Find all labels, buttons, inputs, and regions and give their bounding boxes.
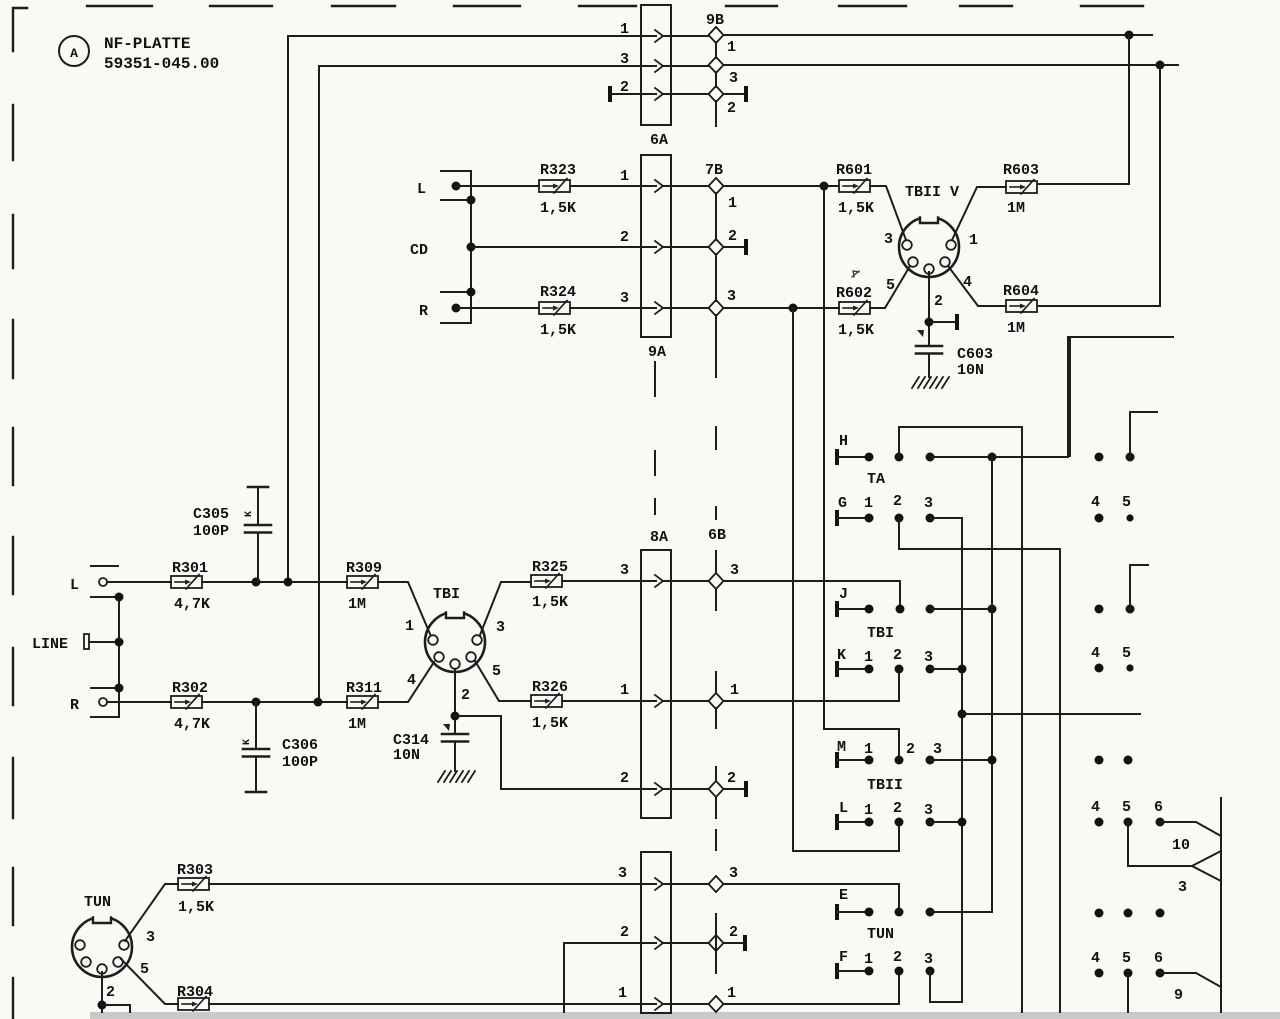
resistor R326 1,5K	[531, 679, 568, 732]
LINE label and tab	[32, 634, 119, 653]
svg-text:G: G	[838, 495, 847, 512]
dashed column between 7B and 6B	[715, 427, 717, 519]
svg-text:5: 5	[886, 277, 895, 294]
svg-text:R311: R311	[346, 680, 382, 697]
via diamond 6B-3	[709, 573, 724, 589]
svg-text:1: 1	[864, 495, 873, 512]
via diamond bottom-3	[709, 876, 724, 892]
resistor R323 1,5K	[539, 162, 576, 217]
terminal stub right of bottom-2 via	[723, 935, 747, 951]
resistor R603 1M	[1003, 162, 1039, 217]
wire H pole up to bus A	[899, 427, 1022, 1012]
wire R304 to bottom connector pin1	[209, 1003, 641, 1005]
capacitor C603 10N	[916, 346, 993, 379]
svg-text:R326: R326	[532, 679, 568, 696]
svg-text:3: 3	[924, 649, 933, 666]
title NF-PLATTE 59351-045.00	[104, 35, 219, 73]
connector 6A pin 2 arrow	[655, 88, 663, 100]
board pad row TA-H (4,5)	[1095, 453, 1135, 462]
resistor R302 4,7K	[171, 680, 210, 733]
wire 6A pin2 to 9B-2	[671, 93, 709, 95]
svg-text:CD: CD	[410, 242, 428, 259]
terminal stub at 6A pin 2	[608, 86, 641, 102]
svg-text:R301: R301	[172, 560, 208, 577]
cable wire pad6 L to harness	[1160, 822, 1221, 836]
svg-text:H: H	[839, 433, 848, 450]
DIN socket TBI	[425, 586, 485, 672]
switch TUN contact F	[835, 949, 935, 979]
switch TUN contact E	[835, 887, 935, 920]
svg-text:10N: 10N	[393, 747, 420, 764]
svg-text:3: 3	[933, 741, 942, 758]
svg-text:2: 2	[728, 228, 737, 245]
svg-text:3: 3	[146, 929, 155, 946]
resistor R602 1,5K	[836, 285, 874, 339]
wire 6A pin3 to left riser	[319, 66, 641, 701]
board pad row TUN-F (4,5,6)	[1095, 969, 1165, 978]
svg-text:10: 10	[1172, 837, 1190, 854]
svg-text:R324: R324	[540, 284, 576, 301]
wire 9B-3 to R604 riser	[723, 61, 1178, 70]
CD input jack L	[417, 171, 471, 200]
svg-text:100P: 100P	[193, 523, 229, 540]
resistor R325 1,5K	[531, 559, 568, 611]
wire R303 to bottom connector pin3	[209, 883, 641, 885]
svg-text:5: 5	[1122, 494, 1131, 511]
connector 8A pin 3 arrow	[655, 575, 663, 587]
svg-text:2: 2	[620, 770, 629, 787]
cable wire pad5 L to harness junction	[1128, 822, 1192, 866]
wire CD shield to 9A pin2	[471, 246, 641, 248]
wire G contact 3 to bus C	[930, 518, 962, 1002]
DIN socket TUN	[72, 894, 132, 977]
connector 6A pin 1 arrow	[655, 30, 663, 42]
svg-text:5: 5	[140, 961, 149, 978]
svg-text:1: 1	[405, 618, 414, 635]
riser wire R604 output	[1039, 65, 1160, 306]
wire R602 to TBII pin 5	[870, 266, 910, 308]
cable wire pad6 F to harness	[1160, 973, 1221, 987]
svg-text:1,5K: 1,5K	[532, 715, 568, 732]
svg-text:1: 1	[620, 168, 629, 185]
board pad row TUN-E (4,5,6)	[1095, 909, 1165, 918]
junction on bus C with long wire right	[958, 710, 1141, 719]
capacitor C306 100P	[242, 702, 318, 792]
resistor R304	[177, 984, 213, 1011]
svg-text:1: 1	[728, 195, 737, 212]
svg-text:3: 3	[730, 562, 739, 579]
svg-text:TUN: TUN	[867, 926, 894, 943]
wire R309 to TBI pin 1	[378, 582, 430, 634]
connector 9A pin 1 arrow	[655, 180, 663, 192]
svg-text:3: 3	[1178, 879, 1187, 896]
svg-text:R302: R302	[172, 680, 208, 697]
LINE shield bus vertical	[115, 593, 124, 718]
wire R324 to 9A pin3	[570, 307, 641, 309]
wire 6A pin1 to 9B-1	[671, 35, 709, 37]
switch TBI contact K	[835, 647, 935, 677]
wire 9B-1 to R603 riser	[723, 31, 1152, 40]
wire pin2 stub with corner to bottom edge	[564, 943, 641, 1012]
terminal stub right of 6B-2	[723, 781, 748, 797]
wire R601 to TBII pin 3	[870, 186, 906, 240]
svg-text:5: 5	[1122, 799, 1131, 816]
terminal stub right of 9B-2	[723, 86, 748, 102]
svg-text:1,5K: 1,5K	[838, 200, 874, 217]
vertical link 9B-1 to 9B-2 to 9B-3	[715, 42, 717, 126]
svg-text:5: 5	[492, 663, 501, 680]
wire R323 to 9A pin1	[570, 185, 641, 187]
wire TBI pin 3 to R325	[480, 582, 531, 635]
wire 6B-1 to switch K pole	[723, 669, 899, 701]
svg-text:R601: R601	[836, 162, 872, 179]
svg-text:R303: R303	[177, 862, 213, 879]
wire TBII pin 4 to R604	[948, 266, 1006, 306]
svg-text:2: 2	[106, 984, 115, 1001]
column stub below 7B-3	[715, 315, 717, 377]
svg-text:4,7K: 4,7K	[174, 596, 210, 613]
svg-text:4: 4	[1091, 494, 1100, 511]
frame left dashed border	[12, 105, 14, 1019]
svg-text:LINE: LINE	[32, 636, 68, 653]
vertical link 7B-1 to 7B-2	[715, 193, 717, 301]
frame top dashed border	[87, 5, 1143, 7]
wire R325 to 8A pin3	[562, 580, 641, 582]
wire M contact 3 to bus D	[930, 756, 997, 765]
svg-text:3: 3	[620, 290, 629, 307]
svg-text:1: 1	[618, 985, 627, 1002]
riser wire R603 output	[1039, 35, 1129, 184]
wire E contact 3 to bus D	[930, 911, 992, 913]
via diamond 7B-2	[709, 239, 724, 255]
svg-text:4: 4	[407, 672, 416, 689]
svg-text:2: 2	[620, 229, 629, 246]
svg-text:2: 2	[934, 293, 943, 310]
connector 9A pin 3 arrow	[655, 302, 663, 314]
svg-text:TUN: TUN	[84, 894, 111, 911]
svg-text:R309: R309	[346, 560, 382, 577]
switch TBI contact J	[835, 586, 935, 617]
connector 6A pin 3 arrow	[655, 60, 663, 72]
svg-text:59351-045.00: 59351-045.00	[104, 55, 219, 73]
svg-text:1: 1	[969, 232, 978, 249]
wire TBII pin 2 down to C603 node	[925, 272, 934, 346]
svg-text:K: K	[242, 739, 253, 745]
revision mark circle A	[59, 36, 89, 66]
svg-text:1M: 1M	[348, 596, 366, 613]
frame top-left corner	[13, 8, 27, 51]
svg-text:R: R	[70, 697, 79, 714]
svg-text:1: 1	[864, 802, 873, 819]
connector 9A pin 2 arrow	[655, 241, 663, 253]
board pad row TA-G (4,5)	[1095, 514, 1134, 523]
hook wire at TA pad 5	[1130, 412, 1157, 457]
svg-text:6A: 6A	[650, 132, 668, 149]
polarity mark at C314	[443, 724, 450, 731]
via diamond 9B-3	[709, 57, 724, 73]
connector strip 7A (bottom)	[641, 852, 671, 1013]
wire C314 node to 8A pin2	[455, 716, 641, 789]
wire TBI pin 5 to R326	[475, 661, 531, 701]
svg-text:R602: R602	[836, 285, 872, 302]
svg-text:C305: C305	[193, 506, 229, 523]
svg-text:R304: R304	[177, 984, 213, 1001]
wire TUN pin 2 down	[98, 972, 131, 1012]
pad labels 4 5 (TBI)	[1091, 645, 1131, 662]
wire LINE R to R302	[107, 701, 171, 703]
ground below C603	[912, 377, 949, 388]
svg-text:1,5K: 1,5K	[540, 322, 576, 339]
LINE input jack L	[70, 566, 118, 597]
svg-text:7B: 7B	[705, 162, 723, 179]
wire F contact 3 to bus C	[930, 971, 962, 1002]
wire C314 to ground	[454, 742, 456, 771]
switch TBII contact M	[835, 739, 942, 768]
wire H contact 3 to right column	[930, 337, 1068, 462]
svg-text:2: 2	[893, 493, 902, 510]
harness merge chevron	[1192, 851, 1221, 881]
svg-text:C603: C603	[957, 346, 993, 363]
svg-text:1,5K: 1,5K	[838, 322, 874, 339]
resistor R301 4,7K	[171, 560, 210, 613]
wire R301 to R309 with taps	[202, 578, 347, 587]
wire 7B-1 to R601	[723, 182, 839, 191]
svg-text:L: L	[839, 800, 848, 817]
via diamond bottom-1	[709, 996, 724, 1012]
pad labels 4 5 6 (TBII)	[1091, 799, 1163, 816]
svg-text:100P: 100P	[282, 754, 318, 771]
svg-text:8A: 8A	[650, 529, 668, 546]
wire bottom-1 via to switch F pole	[723, 971, 899, 1004]
wire 6A pin1 to left riser	[288, 36, 641, 581]
wire TBI pin 2 to C314 node	[451, 670, 460, 734]
svg-text:3: 3	[924, 495, 933, 512]
connector 8A pin 2 arrow	[655, 783, 663, 795]
svg-text:TBII: TBII	[867, 777, 903, 794]
svg-text:K: K	[244, 511, 255, 517]
via diamond 7B-3	[709, 300, 724, 316]
svg-text:R: R	[419, 303, 428, 320]
wire L contact 3 to bus C	[930, 818, 967, 827]
connector bottom pin 2 arrow	[655, 937, 663, 949]
switch TBII contact L	[835, 800, 935, 830]
ground below C314	[438, 771, 475, 782]
svg-text:2: 2	[729, 924, 738, 941]
wire G pole down to bus B	[899, 518, 1060, 1012]
column stubs at 6B	[715, 551, 717, 850]
svg-text:1: 1	[864, 649, 873, 666]
hook wire at TBI pad 5	[1130, 565, 1148, 609]
wire K contact 3 to bus C	[930, 665, 967, 674]
wire TUN pin 5 to R304	[121, 959, 178, 1004]
svg-text:9: 9	[1174, 987, 1183, 1004]
connector strip 9A	[641, 155, 671, 361]
wire R326 to 8A pin1	[562, 700, 641, 702]
dashed column between 9A and 8A	[654, 362, 656, 514]
resistor R309 1M	[346, 560, 382, 613]
resistor R324 1,5K	[539, 284, 576, 339]
pad labels 4 5 6 (TUN)	[1091, 950, 1163, 967]
svg-text:4: 4	[1091, 645, 1100, 662]
resistor R311 1M	[346, 680, 382, 733]
svg-text:2: 2	[727, 770, 736, 787]
connector strip 6A	[641, 5, 671, 149]
via diamond 9B-2	[709, 86, 724, 102]
svg-text:1,5K: 1,5K	[532, 594, 568, 611]
svg-text:4: 4	[1091, 799, 1100, 816]
svg-text:2: 2	[893, 949, 902, 966]
svg-text:R603: R603	[1003, 162, 1039, 179]
svg-text:2: 2	[461, 687, 470, 704]
svg-text:1,5K: 1,5K	[178, 899, 214, 916]
svg-text:L: L	[70, 577, 79, 594]
LINE input jack R	[70, 688, 118, 717]
harness cable vertical	[1220, 798, 1222, 1012]
svg-text:1M: 1M	[1007, 200, 1025, 217]
wires bottom connector pins to vias	[671, 884, 709, 1004]
svg-text:J: J	[839, 586, 848, 603]
svg-text:1: 1	[620, 682, 629, 699]
svg-text:5: 5	[1122, 645, 1131, 662]
terminal stub right of C603 node	[929, 314, 959, 330]
svg-text:2: 2	[906, 741, 915, 758]
terminal stub right of 7B-2	[723, 239, 748, 255]
bus D vertical (x=992)	[991, 457, 993, 912]
wire stubs inside connector strips	[642, 36, 670, 1004]
svg-text:3: 3	[620, 562, 629, 579]
svg-text:3: 3	[884, 231, 893, 248]
svg-text:1M: 1M	[348, 716, 366, 733]
svg-text:E: E	[839, 887, 848, 904]
resistor R303 1,5K	[177, 862, 214, 916]
wire 6A pin3 to 9B-3	[671, 65, 709, 67]
svg-text:1: 1	[864, 951, 873, 968]
wire TBII pin 1 to R603	[952, 187, 1006, 240]
svg-text:F: F	[839, 949, 848, 966]
speck artifact above R602	[852, 271, 859, 277]
wire J contact 3 to bus D	[930, 605, 997, 614]
polarity mark at C603	[917, 330, 924, 337]
svg-text:1: 1	[727, 985, 736, 1002]
wire R302 to R311 with taps	[202, 698, 347, 707]
board pad row TBII-M (4,5)	[1095, 756, 1133, 765]
board pad row TBI-K (4,5)	[1095, 664, 1134, 673]
svg-text:5: 5	[1122, 950, 1131, 967]
connector 8A pin 1 arrow	[655, 695, 663, 707]
svg-text:TBI: TBI	[867, 625, 894, 642]
svg-text:2: 2	[620, 924, 629, 941]
DIN socket TBII V	[899, 184, 959, 277]
riser wire R601 to switch M pole	[824, 186, 899, 760]
vertical link through bottom-2 via	[715, 914, 717, 973]
svg-text:6B: 6B	[708, 527, 726, 544]
board pad row TBII-L (4,5,6)	[1095, 818, 1165, 827]
svg-text:1: 1	[864, 741, 873, 758]
svg-text:TBI: TBI	[433, 586, 460, 603]
svg-text:4,7K: 4,7K	[174, 716, 210, 733]
CD shield bus vertical	[467, 171, 476, 323]
resistor R604 1M	[1003, 283, 1039, 337]
wire LINE L to R301	[107, 581, 171, 583]
wire C603 to ground	[928, 354, 930, 377]
wires 8A pins to 6B diamonds	[671, 581, 709, 789]
riser wire R602 to switch L pole	[793, 308, 899, 851]
via diamond 6B-2	[709, 781, 724, 797]
svg-text:3: 3	[729, 70, 738, 87]
wire 7B-3 to R602	[723, 304, 839, 313]
capacitor C305 100P	[193, 487, 271, 582]
pad labels 4 5 (TA)	[1091, 494, 1131, 511]
wires 9A pins to 7B diamonds	[671, 186, 709, 308]
svg-text:3: 3	[496, 619, 505, 636]
wire pad5 F down to edge	[1127, 973, 1129, 1012]
svg-text:1: 1	[727, 39, 736, 56]
board pad row TBI-J (4,5)	[1095, 605, 1135, 614]
svg-text:3: 3	[618, 865, 627, 882]
wire H row to right edge stub	[1070, 337, 1173, 456]
via diamond bottom-2	[709, 935, 724, 951]
svg-text:L: L	[417, 181, 426, 198]
via diamond 6B-1	[709, 693, 724, 709]
svg-text:R323: R323	[540, 162, 576, 179]
switch TA contact H	[835, 433, 935, 465]
connector bottom pin 1 arrow	[655, 998, 663, 1010]
wire R311 to TBI pin 4	[378, 662, 434, 702]
connector bottom pin 3 arrow	[655, 878, 663, 890]
via diamond 9B-1	[709, 27, 724, 43]
svg-text:A: A	[70, 46, 78, 61]
svg-text:1: 1	[730, 682, 739, 699]
svg-text:3: 3	[729, 865, 738, 882]
svg-text:TA: TA	[867, 471, 885, 488]
svg-text:6: 6	[1154, 799, 1163, 816]
connector strip 8A	[641, 529, 671, 818]
svg-text:9B: 9B	[706, 12, 724, 29]
wire CD L to R323	[456, 185, 539, 187]
wire 6B-3 to switch J pole	[723, 581, 900, 609]
svg-text:C306: C306	[282, 737, 318, 754]
svg-text:6: 6	[1154, 950, 1163, 967]
svg-text:2: 2	[727, 100, 736, 117]
svg-text:NF-PLATTE: NF-PLATTE	[104, 35, 190, 53]
svg-text:R604: R604	[1003, 283, 1039, 300]
svg-text:R325: R325	[532, 559, 568, 576]
capacitor C314 10N	[393, 732, 468, 764]
svg-text:3: 3	[924, 802, 933, 819]
CD input jack R	[419, 292, 471, 323]
wire TUN pin 3 to R303	[125, 884, 178, 941]
svg-text:10N: 10N	[957, 362, 984, 379]
wire bottom-3 via to switch E pole	[723, 884, 899, 912]
svg-text:3: 3	[924, 951, 933, 968]
svg-text:3: 3	[727, 288, 736, 305]
switch TA contact G	[835, 493, 935, 526]
svg-text:4: 4	[1091, 950, 1100, 967]
svg-text:2: 2	[893, 647, 902, 664]
svg-text:1M: 1M	[1007, 320, 1025, 337]
svg-text:9A: 9A	[648, 344, 666, 361]
svg-text:1,5K: 1,5K	[540, 200, 576, 217]
wire CD R to R324	[456, 307, 539, 309]
svg-text:TBII V: TBII V	[905, 184, 959, 201]
svg-text:2: 2	[893, 800, 902, 817]
via diamond 7B-1	[709, 178, 724, 194]
scan edge gray bar	[90, 1012, 1280, 1019]
resistor R601 1,5K	[836, 162, 874, 217]
